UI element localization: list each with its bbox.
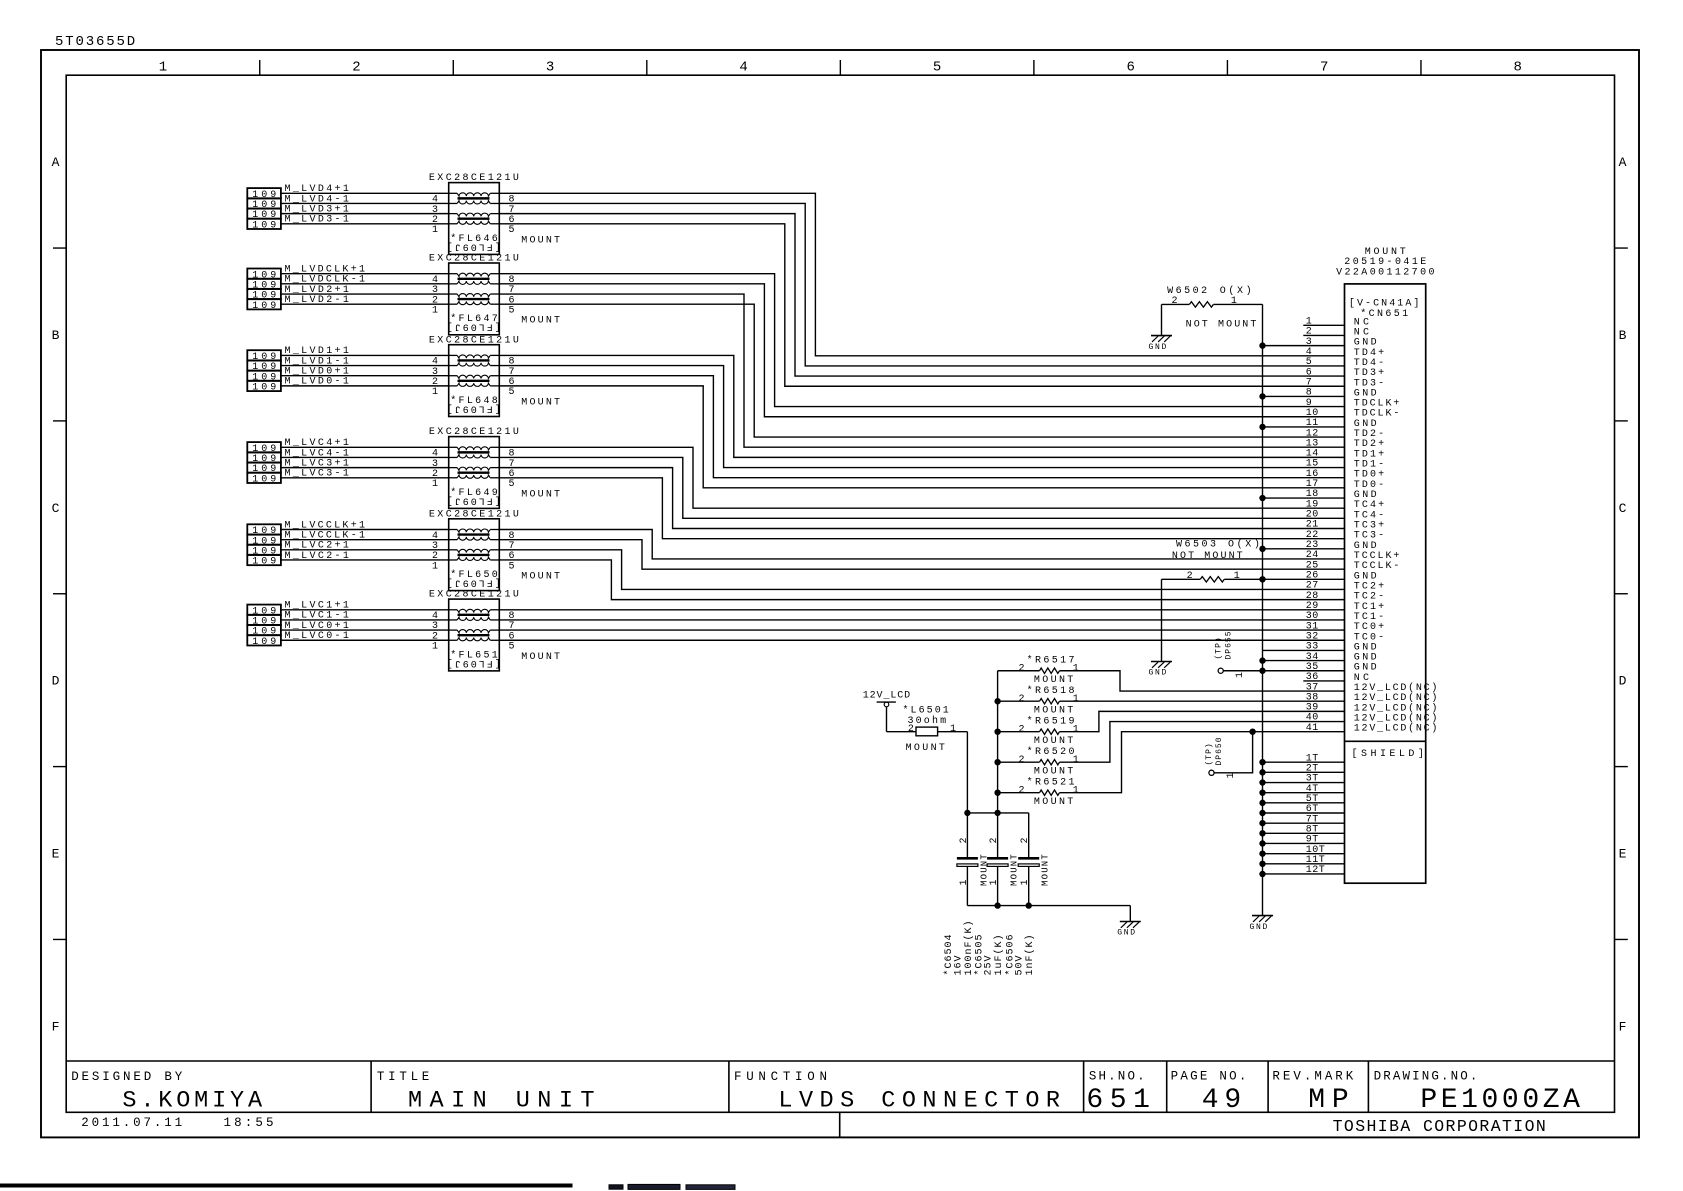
svg-text:2: 2 [1020,837,1031,843]
svg-text:MOUNT: MOUNT [1010,853,1020,886]
wire capacitor ground bus [967,903,1130,922]
svg-text:5T03655D: 5T03655D [55,34,135,50]
resistor R6521 MOUNT [998,776,1079,807]
off-page reference 109 (M_LVDCLK-1) [247,279,281,292]
svg-text:6: 6 [1126,59,1134,75]
wire R6518 pin 1 to CN651 [1060,700,1345,702]
svg-text:GND: GND [1117,929,1137,938]
wire FL650 pin 7 to CN651 pin 25 [499,540,1344,569]
svg-text:1: 1 [1234,571,1240,582]
filter FL650 (EXC28CE121U common-mode choke) [429,509,560,590]
svg-text:[FL09J]: [FL09J] [445,577,501,589]
net M_LVC2-1 : wire 109 to FL650 pin 1 [281,551,449,562]
ground (capacitors) [1117,922,1141,938]
svg-text:5: 5 [509,225,515,236]
svg-text:109: 109 [252,474,276,485]
svg-text:EXC28CE121U: EXC28CE121U [429,173,519,184]
net M_LVDCLK+1 : wire 109 to FL647 pin 4 [281,265,449,276]
net M_LVC1+1 : wire 109 to FL651 pin 4 [281,601,449,612]
svg-text:1: 1 [1073,724,1079,735]
ground (W6502 pin 2) [1149,336,1173,352]
filter FL646 (EXC28CE121U common-mode choke) [429,173,560,254]
svg-text:MOUNT: MOUNT [1034,736,1073,747]
svg-text:*R6518: *R6518 [1027,685,1075,697]
ground (bus bottom) [1250,916,1274,932]
off-page reference 109 (M_LVC1+1) [247,605,281,618]
svg-text:F: F [52,1019,60,1034]
wire FL649 pin 5 to CN651 pin 22 [499,478,1344,539]
svg-text:B: B [1619,328,1627,343]
svg-text:1: 1 [432,305,438,316]
svg-text:FUNCTION: FUNCTION [734,1070,827,1084]
wire FL649 pin 6 to CN651 pin 21 [499,468,1344,529]
svg-text:25V: 25V [984,954,995,975]
net M_LVD4+1 : wire 109 to FL646 pin 4 [281,184,449,195]
wire L6501 pin1 to capacitor bus [965,732,970,859]
svg-text:F: F [1619,1019,1627,1034]
off-page reference 109 (M_LVD1+1) [247,350,281,363]
wire R6517 pin 1 to CN651 [1060,671,1345,691]
svg-text:100nF(K): 100nF(K) [963,919,975,975]
svg-text:D: D [1619,674,1627,689]
net M_LVC2+1 : wire 109 to FL650 pin 2 [281,541,449,552]
off-page reference 109 (M_LVD0+1) [247,371,281,384]
svg-text:1: 1 [432,561,438,572]
svg-text:[V-CN41A]: [V-CN41A] [1349,298,1420,310]
svg-text:16V: 16V [953,954,964,975]
svg-text:MOUNT: MOUNT [521,489,560,500]
svg-text:GND: GND [1149,343,1169,352]
svg-text:1: 1 [432,479,438,490]
svg-text:2: 2 [1171,296,1177,307]
svg-text:MOUNT: MOUNT [1365,247,1406,258]
off-page reference 109 (M_LVCCLK+1) [247,524,281,537]
svg-text:1: 1 [432,387,438,398]
filter FL651 (EXC28CE121U common-mode choke) [429,590,560,671]
svg-text:SH.NO.: SH.NO. [1089,1069,1145,1083]
capacitor C6504 16V 100nF(K) MOUNT [943,837,989,975]
svg-text:V22A00112700: V22A00112700 [1336,268,1434,279]
svg-text:DP650: DP650 [1215,736,1224,765]
svg-text:MOUNT: MOUNT [1034,766,1073,777]
svg-text:651: 651 [1086,1085,1150,1116]
svg-text:PAGE NO.: PAGE NO. [1171,1069,1247,1083]
svg-text:5: 5 [509,561,515,572]
off-page reference 109 (M_LVD3-1) [247,219,281,232]
svg-text:1: 1 [1020,879,1031,885]
svg-text:50V: 50V [1015,954,1026,975]
capacitor C6506 50V 1nF(K) MOUNT [1005,837,1051,975]
filter FL648 (EXC28CE121U common-mode choke) [429,335,560,416]
net M_LVD1-1 : wire 109 to FL648 pin 3 [281,356,449,367]
svg-text:1: 1 [989,879,1000,885]
svg-text:2: 2 [1018,663,1024,674]
off-page reference 109 (M_LVD2-1) [247,299,281,312]
wire FL646 pin 5 to CN651 pin 7 [499,224,1344,386]
wire FL651 pin 6 to CN651 pin 31 [499,629,1344,631]
svg-text:109: 109 [252,382,276,393]
off-page reference 109 (M_LVC1-1) [247,615,281,628]
svg-text:[FL09J]: [FL09J] [445,402,501,414]
off-page reference 109 (M_LVC0+1) [247,625,281,638]
off-page reference 109 (M_LVDCLK+1) [247,269,281,282]
svg-text:5: 5 [509,305,515,316]
wire FL646 pin 7 to CN651 pin 5 [499,203,1344,365]
svg-text:8: 8 [1514,59,1522,75]
svg-text:[FL09J]: [FL09J] [445,240,501,252]
wire FL649 pin 8 to CN651 pin 19 [499,447,1344,508]
svg-text:A: A [1619,155,1627,170]
wire R6519 pin 1 to CN651 [1060,711,1345,731]
off-page reference 109 (M_LVC2+1) [247,545,281,558]
wire FL648 pin 6 to CN651 pin 16 [499,376,1344,478]
svg-text:E: E [1619,847,1627,862]
svg-text:2011.07.11: 2011.07.11 [81,1116,182,1130]
svg-text:2: 2 [1018,724,1024,735]
svg-text:4: 4 [739,59,747,75]
wire FL646 pin 6 to CN651 pin 6 [499,214,1344,376]
wire FL649 pin 7 to CN651 pin 20 [499,457,1344,518]
svg-text:1: 1 [1073,663,1079,674]
svg-text:A: A [52,155,60,170]
net M_LVDCLK-1 : wire 109 to FL647 pin 3 [281,275,449,286]
svg-text:MOUNT: MOUNT [1034,705,1073,716]
net M_LVD2+1 : wire 109 to FL647 pin 2 [281,285,449,296]
svg-text:O(X): O(X) [1228,539,1260,551]
wire FL648 pin 5 to CN651 pin 17 [499,386,1344,488]
svg-text:MOUNT: MOUNT [521,572,560,583]
svg-text:MAIN UNIT: MAIN UNIT [408,1087,595,1114]
net M_LVD2-1 : wire 109 to FL647 pin 1 [281,295,449,306]
wire FL648 pin 8 to CN651 pin 14 [499,355,1344,457]
svg-text:2: 2 [959,837,970,843]
wire FL647 pin 5 to CN651 pin 12 [499,304,1344,437]
off-page reference 109 (M_LVD2+1) [247,289,281,302]
off-page reference 109 (M_LVD4-1) [247,198,281,211]
svg-text:2: 2 [989,837,1000,843]
svg-text:REV.MARK: REV.MARK [1272,1069,1353,1083]
svg-text:109: 109 [252,557,276,568]
wire FL646 pin 8 to CN651 pin 4 [499,193,1344,355]
resistor W6503 0(X) NOT MOUNT [1162,539,1263,662]
resistor R6518 MOUNT [998,685,1079,716]
svg-text:E: E [52,847,60,862]
wire FL650 pin 5 to CN651 pin 28 [499,560,1344,600]
svg-text:2: 2 [908,724,914,735]
off-page reference 109 (M_LVC2-1) [247,555,281,568]
svg-text:EXC28CE121U: EXC28CE121U [429,254,519,265]
svg-text:49: 49 [1202,1085,1241,1116]
wire FL647 pin 6 to CN651 pin 13 [499,294,1344,447]
wire R6520 pin 1 to CN651 [1060,722,1345,763]
svg-text:C: C [1619,501,1627,516]
svg-text:MOUNT: MOUNT [1041,853,1051,886]
resistor R6519 MOUNT [998,716,1079,747]
net M_LVC3+1 : wire 109 to FL649 pin 2 [281,458,449,469]
svg-text:1: 1 [159,59,167,75]
power 12V_LCD [863,691,911,732]
test point DP650 (TP) [1205,729,1255,779]
svg-text:C: C [52,501,60,516]
svg-text:B: B [52,328,60,343]
off-page reference 109 (M_LVC4+1) [247,442,281,455]
svg-text:5: 5 [509,642,515,653]
svg-text:*R6519: *R6519 [1027,716,1075,728]
svg-text:[FL09J]: [FL09J] [445,321,501,333]
svg-text:[FL09J]: [FL09J] [445,494,501,506]
svg-text:1: 1 [959,879,970,885]
svg-text:MOUNT: MOUNT [521,235,560,246]
svg-text:5: 5 [933,59,941,75]
svg-text:EXC28CE121U: EXC28CE121U [429,427,519,438]
svg-text:LVDS CONNECTOR: LVDS CONNECTOR [778,1087,1060,1114]
svg-text:1uF(K): 1uF(K) [993,933,1005,975]
svg-text:2: 2 [1187,571,1193,582]
resistor R6517 MOUNT [998,655,1079,686]
filter FL649 (EXC28CE121U common-mode choke) [429,427,560,508]
svg-text:[FL09J]: [FL09J] [445,657,501,669]
off-page reference 109 (M_LVD0-1) [247,381,281,394]
ground bus wire (CN651 GND pins and shield) [1260,304,1345,915]
net M_LVC4+1 : wire 109 to FL649 pin 4 [281,438,449,449]
wire FL647 pin 8 to CN651 pin 9 [499,274,1344,407]
svg-text:1: 1 [1231,296,1237,307]
wire FL647 pin 7 to CN651 pin 10 [499,284,1344,417]
wire FL650 pin 8 to CN651 pin 24 [499,530,1344,559]
net M_LVC0-1 : wire 109 to FL651 pin 1 [281,631,449,642]
svg-text:W6503: W6503 [1176,540,1216,551]
svg-text:5: 5 [509,479,515,490]
svg-text:1: 1 [1073,755,1079,766]
svg-text:(TP): (TP) [1215,636,1224,659]
svg-text:12V_LCD(NC): 12V_LCD(NC) [1354,723,1438,735]
svg-text:DP655: DP655 [1225,630,1234,659]
svg-text:1: 1 [1235,672,1246,678]
svg-text:*R6517: *R6517 [1027,655,1075,667]
svg-text:12V_LCD: 12V_LCD [863,691,911,702]
svg-text:MOUNT: MOUNT [1034,797,1073,808]
svg-text:MOUNT: MOUNT [1034,675,1073,686]
svg-text:20519-041E: 20519-041E [1344,257,1426,268]
svg-text:MP: MP [1308,1085,1349,1116]
wire capacitor top bus [967,813,1028,858]
off-page reference 109 (M_LVCCLK-1) [247,534,281,547]
wire FL650 pin 6 to CN651 pin 27 [499,550,1344,590]
resistor R6520 MOUNT [998,746,1079,777]
off-page reference 109 (M_LVD3+1) [247,208,281,221]
svg-text:NOT MOUNT: NOT MOUNT [1186,320,1257,331]
svg-text:D: D [52,674,60,689]
svg-text:109: 109 [252,220,276,231]
svg-text:DESIGNED BY: DESIGNED BY [71,1070,183,1084]
wire FL651 pin 7 to CN651 pin 30 [499,619,1344,621]
svg-text:MOUNT: MOUNT [906,743,945,754]
off-page reference 109 (M_LVC3-1) [247,473,281,486]
off-page reference 109 (M_LVC0-1) [247,635,281,648]
svg-text:1nF(K): 1nF(K) [1024,933,1036,975]
svg-text:1: 1 [432,642,438,653]
net M_LVD3-1 : wire 109 to FL646 pin 1 [281,215,449,226]
svg-text:1: 1 [1073,785,1079,796]
svg-text:109: 109 [252,637,276,648]
svg-text:TOSHIBA CORPORATION: TOSHIBA CORPORATION [1333,1117,1546,1136]
svg-text:GND: GND [1250,923,1270,932]
svg-text:NOT MOUNT: NOT MOUNT [1172,551,1243,562]
net M_LVD4-1 : wire 109 to FL646 pin 3 [281,194,449,205]
net M_LVC4-1 : wire 109 to FL649 pin 3 [281,448,449,459]
svg-text:TITLE: TITLE [377,1070,429,1084]
net M_LVC3-1 : wire 109 to FL649 pin 1 [281,469,449,480]
ground (W6503 pin 2) [1149,662,1173,678]
wire resistor bus (R6517 pin2 to capacitors) [995,671,1000,859]
svg-text:O(X): O(X) [1220,285,1252,297]
net M_LVD0-1 : wire 109 to FL648 pin 1 [281,377,449,388]
svg-text:5: 5 [509,387,515,398]
svg-text:*R6520: *R6520 [1027,746,1075,758]
svg-text:DRAWING.NO.: DRAWING.NO. [1374,1069,1478,1083]
wire FL651 pin 8 to CN651 pin 29 [499,609,1344,611]
filter FL647 (EXC28CE121U common-mode choke) [429,254,560,335]
net M_LVC0+1 : wire 109 to FL651 pin 2 [281,621,449,632]
svg-text:*R6521: *R6521 [1027,776,1075,788]
svg-text:7: 7 [1320,59,1328,75]
svg-text:EXC28CE121U: EXC28CE121U [429,335,519,346]
svg-text:EXC28CE121U: EXC28CE121U [429,590,519,601]
wire R6521 pin 1 to CN651 [1060,732,1345,793]
svg-text:MOUNT: MOUNT [521,316,560,327]
svg-text:2: 2 [1018,785,1024,796]
svg-text:2: 2 [1018,694,1024,705]
svg-text:3: 3 [546,59,554,75]
resistor W6502 0(X) NOT MOUNT [1162,285,1263,336]
svg-text:EXC28CE121U: EXC28CE121U [429,509,519,520]
connector CN651 (V-CN41A, MOUNT 20519-041E V22A00112700) [1263,247,1438,883]
net M_LVCCLK+1 : wire 109 to FL650 pin 4 [281,520,449,531]
svg-text:2: 2 [1018,755,1024,766]
net M_LVD0+1 : wire 109 to FL648 pin 2 [281,367,449,378]
wire FL648 pin 7 to CN651 pin 15 [499,366,1344,468]
svg-text:MOUNT: MOUNT [521,397,560,408]
test point DP655 (TP) [1215,630,1263,678]
net M_LVC1-1 : wire 109 to FL651 pin 3 [281,611,449,622]
svg-text:2: 2 [352,59,360,75]
net M_LVD3+1 : wire 109 to FL646 pin 2 [281,204,449,215]
off-page reference 109 (M_LVD4+1) [247,188,281,201]
capacitor C6505 25V 1uF(K) MOUNT [973,837,1019,975]
inductor L6501 30ohm MOUNT [887,705,968,754]
off-page reference 109 (M_LVC4-1) [247,452,281,465]
svg-text:18:55: 18:55 [224,1116,274,1130]
net M_LVD1+1 : wire 109 to FL648 pin 4 [281,346,449,357]
svg-text:MOUNT: MOUNT [521,652,560,663]
svg-text:1: 1 [1073,694,1079,705]
svg-text:1: 1 [432,225,438,236]
svg-text:GND: GND [1149,669,1169,678]
svg-text:(TP): (TP) [1205,742,1214,765]
svg-text:[SHIELD]: [SHIELD] [1352,748,1424,760]
svg-text:PE1000ZA: PE1000ZA [1420,1085,1580,1116]
svg-text:1: 1 [950,724,956,735]
off-page reference 109 (M_LVD1-1) [247,360,281,373]
off-page reference 109 (M_LVC3+1) [247,462,281,475]
svg-text:S.KOMIYA: S.KOMIYA [122,1087,263,1114]
wire FL651 pin 5 to CN651 pin 32 [499,639,1344,641]
svg-text:109: 109 [252,301,276,312]
net M_LVCCLK-1 : wire 109 to FL650 pin 3 [281,530,449,541]
